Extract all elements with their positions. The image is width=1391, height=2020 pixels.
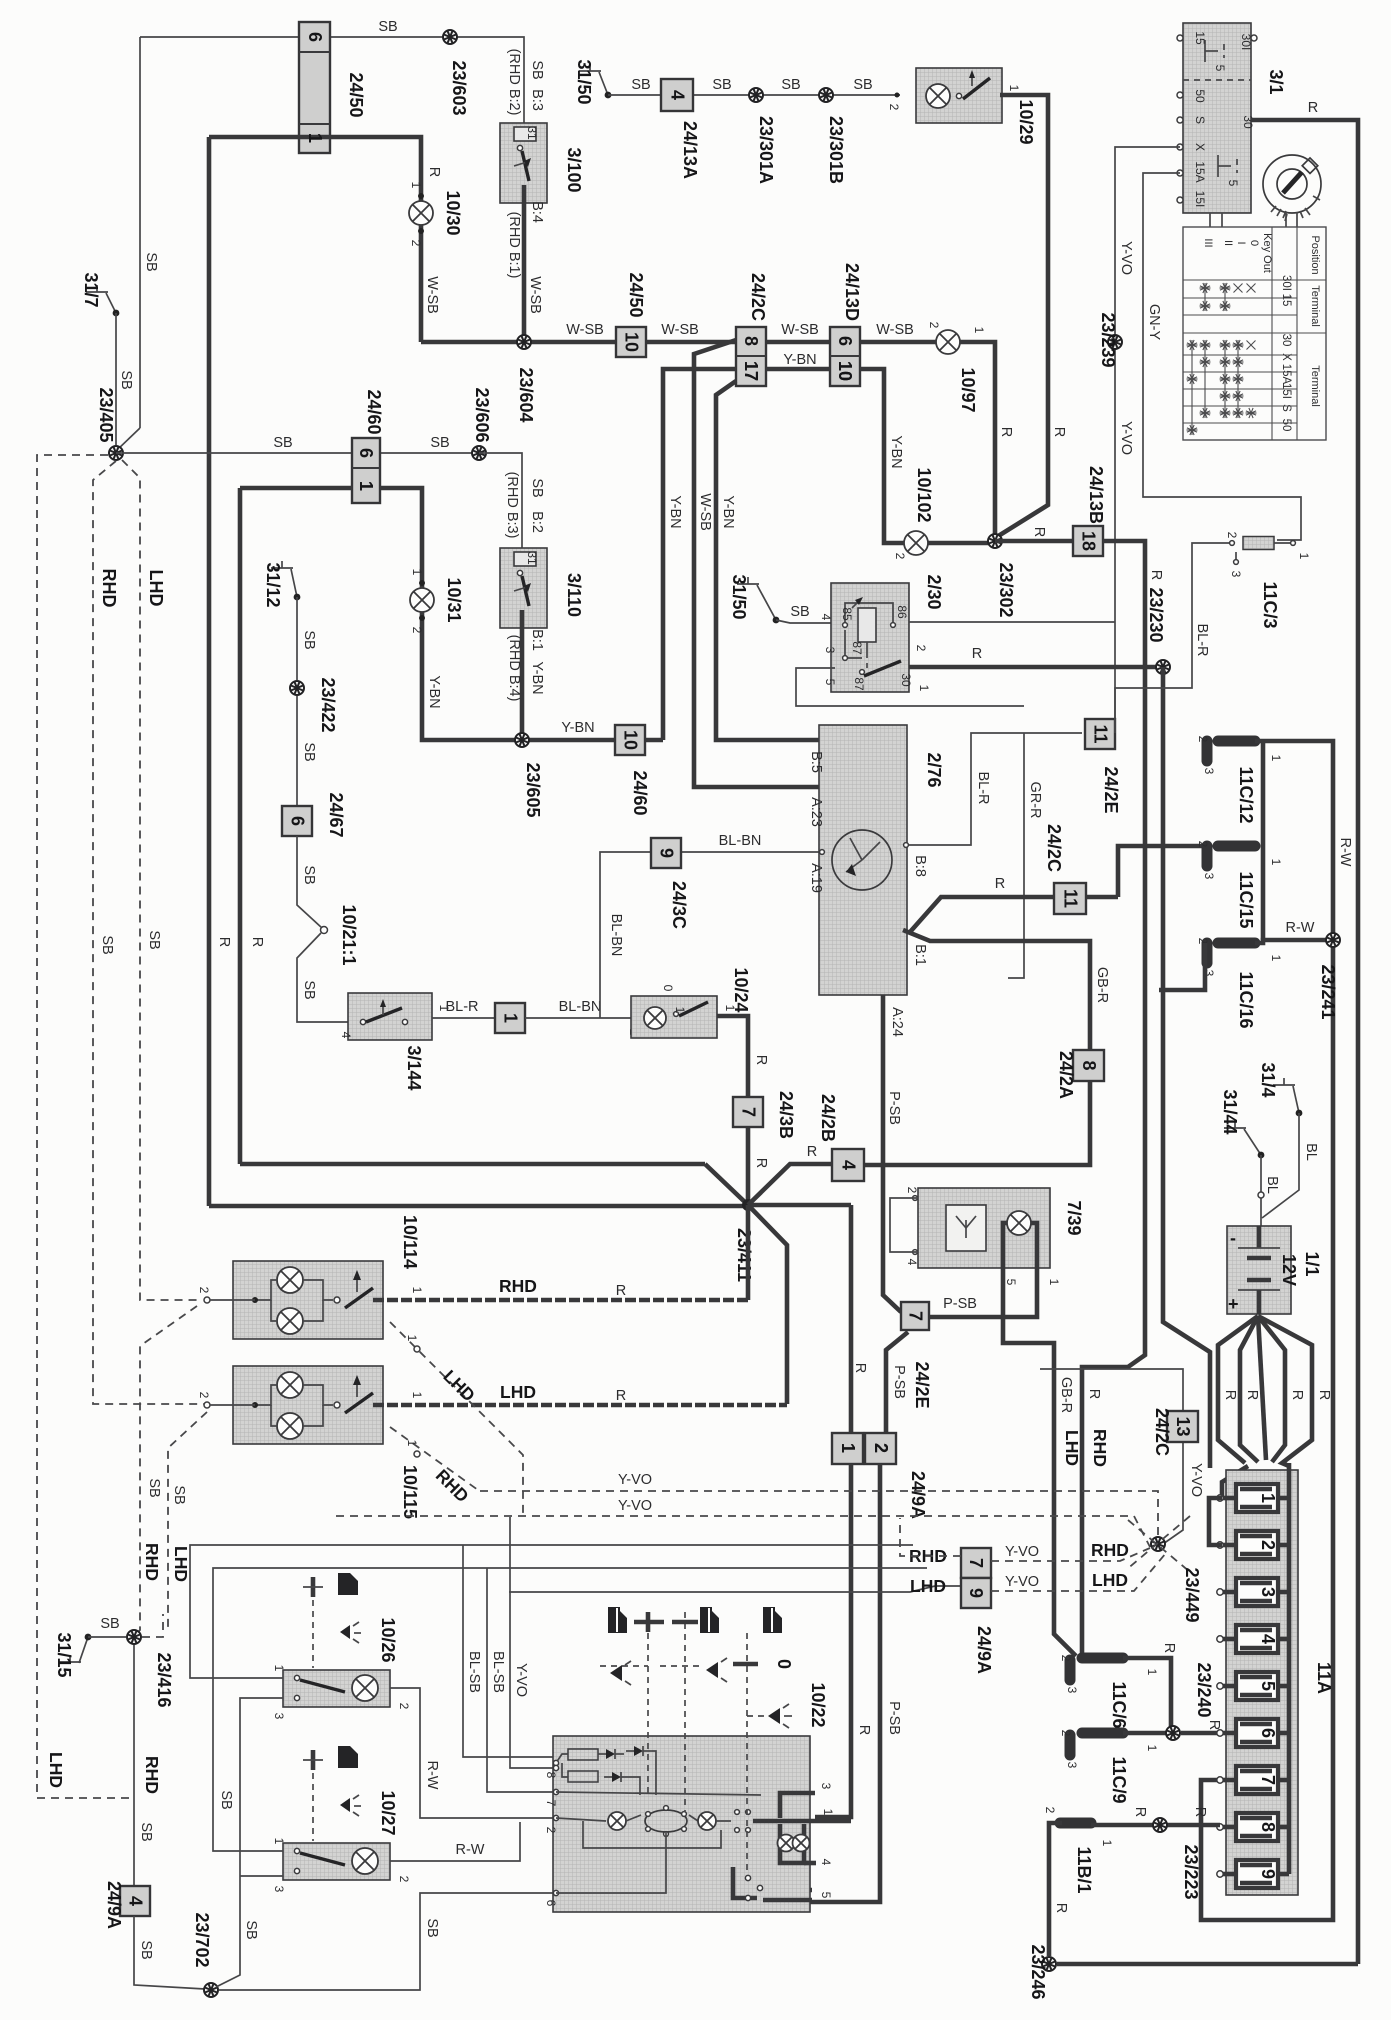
- label R right of 23/223: [1192, 1807, 1208, 1817]
- svg-text:SB: SB: [712, 77, 731, 93]
- svg-text:24/2E: 24/2E: [912, 1361, 932, 1408]
- dashed Y-VO from headlamps upper: [480, 1491, 1158, 1536]
- label 23/606: [472, 387, 492, 442]
- label SB top wire: [378, 19, 397, 35]
- svg-text:23/405: 23/405: [96, 387, 116, 442]
- ground 31/50 lower: [729, 574, 779, 623]
- label 24/2A: [1056, 1051, 1076, 1099]
- svg-text:R: R: [216, 937, 232, 947]
- svg-text:LHD: LHD: [171, 1546, 191, 1582]
- svg-text:R-W: R-W: [1286, 920, 1315, 936]
- svg-text:1: 1: [272, 1838, 286, 1845]
- pin 2 of 10/27: [397, 1876, 411, 1883]
- svg-text:5: 5: [819, 1892, 833, 1899]
- pin 2 of 7/39: [905, 1187, 919, 1201]
- label 11C/3: [1260, 581, 1280, 628]
- svg-text:II: II: [1222, 240, 1234, 246]
- wire thin stubs pins 2 4 of 7/39: [890, 1198, 918, 1252]
- ground 31/12: [263, 561, 300, 608]
- wire R battery fan 5: [1258, 1316, 1312, 1466]
- wire R from 23/411 junction over: [748, 1203, 851, 1208]
- wire BL-BN from 10/24 branch up to connector 9 and 2/76 A:19: [600, 852, 819, 1018]
- svg-text:SB: SB: [118, 370, 134, 389]
- svg-text:R: R: [616, 1388, 626, 1404]
- wire SB from 31/7 to 23/405: [115, 313, 117, 445]
- svg-text:R-W: R-W: [456, 1842, 485, 1858]
- svg-text:R: R: [1308, 100, 1318, 116]
- pin 2 of 10/114: [197, 1287, 211, 1303]
- svg-text:GR-R: GR-R: [1027, 781, 1043, 818]
- label W-SB: [566, 322, 604, 338]
- svg-text:B:5: B:5: [808, 751, 824, 773]
- label RHD below 23/416: [142, 1756, 162, 1794]
- connector 24/2E pin 7: [901, 1302, 929, 1330]
- label SB: [430, 435, 449, 451]
- svg-text:R: R: [972, 646, 982, 662]
- dashed RHD wire from 10/114 down to 23/416: [136, 1306, 197, 1634]
- svg-text:BL-BN: BL-BN: [559, 999, 602, 1015]
- svg-text:B:4: B:4: [529, 201, 545, 223]
- label BL-R: [1194, 623, 1210, 656]
- svg-text:10/114: 10/114: [400, 1215, 420, 1269]
- svg-text:B:8: B:8: [912, 855, 928, 877]
- label 23/302: [996, 562, 1016, 617]
- svg-text:24/2C: 24/2C: [1152, 1408, 1172, 1456]
- label LHD right: [1092, 1570, 1128, 1590]
- wire from lamp 10/102 to junction 23/302: [928, 541, 995, 546]
- svg-text:10: 10: [621, 730, 641, 750]
- wire P-SB continues down from 24/2E: [886, 1332, 908, 1432]
- connector 24/67 pin 1: [495, 1003, 525, 1033]
- label 7/39: [1064, 1200, 1084, 1235]
- dashed Y-VO lower: [336, 1516, 1150, 1547]
- label W-SB on 3/100 drop: [527, 276, 543, 314]
- label B:5: [808, 751, 824, 773]
- svg-text:2: 2: [397, 1703, 411, 1710]
- wire R RHD from 10/114: [373, 1298, 748, 1303]
- label 1 of 2/30: [917, 685, 931, 692]
- label Y-BN: [561, 720, 594, 736]
- svg-text:2: 2: [1043, 1807, 1057, 1814]
- svg-text:Y-VO: Y-VO: [618, 1498, 652, 1514]
- svg-text:11C/6: 11C/6: [1109, 1681, 1129, 1728]
- svg-text:11C/3: 11C/3: [1260, 581, 1280, 628]
- wire R outer frame bottom: [209, 1204, 705, 1209]
- wire SB from 24/60 pin6 to 23/606: [380, 452, 479, 454]
- svg-text:3/110: 3/110: [564, 573, 584, 617]
- label 1/1: [1302, 1251, 1322, 1276]
- svg-text:2: 2: [927, 322, 941, 329]
- label 3/1: [1266, 69, 1286, 94]
- svg-text:R: R: [1161, 1643, 1177, 1653]
- svg-text:R: R: [856, 1725, 872, 1735]
- svg-text:(RHD B:2): (RHD B:2): [506, 49, 522, 116]
- label 3/110: [564, 573, 584, 617]
- svg-text:W-SB: W-SB: [661, 322, 699, 338]
- label SB: [712, 77, 731, 93]
- pin 1 of 11C/15: [1269, 859, 1283, 866]
- svg-text:1: 1: [1269, 755, 1283, 762]
- svg-text:R: R: [807, 1144, 817, 1160]
- svg-text:9: 9: [657, 848, 677, 858]
- svg-text:RHD: RHD: [142, 1543, 162, 1581]
- svg-text:R-W: R-W: [424, 1761, 440, 1790]
- label 10/115: [400, 1465, 420, 1519]
- label Y-VO lower: [1118, 421, 1134, 455]
- svg-text:6: 6: [288, 816, 308, 826]
- label Y-VO vert: [513, 1663, 529, 1697]
- connector 24/9A pin 4: [120, 1886, 150, 1916]
- wire R inner frame into junction 23/411: [705, 1164, 748, 1205]
- svg-text:3/100: 3/100: [564, 147, 584, 192]
- label 11C/15: [1236, 871, 1256, 928]
- label 30 of 2/30: [899, 673, 913, 687]
- pin 1 of 10/29: [1007, 85, 1021, 92]
- label W-SB on middle leg: [697, 493, 713, 531]
- svg-text:24/50: 24/50: [626, 272, 646, 317]
- splice 23/449: [1151, 1537, 1165, 1551]
- fuse 11C/3: [1243, 537, 1274, 550]
- pin 1 of 11C/6: [1145, 1669, 1159, 1676]
- label BL at 31/44: [1264, 1176, 1280, 1194]
- connector 11B/1: [1060, 1818, 1091, 1829]
- svg-text:2: 2: [1059, 1655, 1073, 1662]
- svg-text:1: 1: [356, 481, 376, 491]
- svg-text:Y-VO: Y-VO: [618, 1472, 652, 1488]
- label BL-R on B:8 riser: [975, 771, 991, 804]
- wire SB from 31/50 to relay 2/30: [776, 620, 831, 623]
- svg-text:BL-BN: BL-BN: [608, 914, 624, 957]
- svg-text:11C/12: 11C/12: [1236, 766, 1256, 823]
- svg-text:3: 3: [1229, 571, 1243, 578]
- wire SB from 24/50 pin6 to 23/603 and 3/100: [140, 37, 524, 123]
- svg-text:I: I: [1235, 241, 1247, 244]
- label Y-VO below pin13: [1188, 1463, 1204, 1497]
- svg-text:24/13A: 24/13A: [680, 121, 700, 179]
- lamp 10/31: [410, 588, 434, 612]
- svg-text:9: 9: [966, 1588, 986, 1598]
- svg-text:1: 1: [1297, 553, 1311, 560]
- svg-text:0: 0: [1248, 240, 1260, 246]
- pin 8 of 10/22: [544, 1772, 558, 1779]
- svg-text:SB: SB: [301, 630, 317, 649]
- svg-text:15I: 15I: [1280, 383, 1292, 399]
- svg-text:10/97: 10/97: [958, 367, 978, 412]
- label 31 terminal of 3/110: [525, 551, 539, 565]
- svg-text:R: R: [1316, 1390, 1332, 1400]
- wire R left trunk from 24/50 pin1 down: [207, 137, 212, 1206]
- svg-text:-: -: [1230, 1228, 1236, 1248]
- svg-text:R: R: [1051, 427, 1067, 437]
- svg-text:P-SB: P-SB: [886, 1091, 902, 1125]
- splice 23/416: [127, 1630, 141, 1644]
- wire R from relay 2/30 contact 30 to splice 23/230: [909, 665, 1156, 670]
- svg-text:LHD: LHD: [500, 1382, 536, 1402]
- svg-text:1: 1: [501, 1013, 521, 1023]
- label GB-R: [1058, 1377, 1074, 1413]
- label 0 1 of 10/24: [661, 985, 687, 1014]
- wire R from 11C/6 to 23/240 via vertical: [1123, 1658, 1171, 1733]
- pin 1 of lamp 10/97: [972, 327, 986, 334]
- wire R from junction to 24/2B: [748, 1164, 832, 1205]
- pin 1 label of 24/9A restamp: [838, 1443, 858, 1453]
- svg-text:1: 1: [1269, 859, 1283, 866]
- svg-text:6: 6: [544, 1900, 558, 1907]
- pin 1 of 10/115: [410, 1392, 424, 1399]
- svg-text:7: 7: [1258, 1775, 1278, 1785]
- svg-text:3: 3: [819, 1783, 833, 1790]
- label RHD vert: [1090, 1429, 1110, 1467]
- label SB: [138, 1822, 154, 1841]
- svg-text:0: 0: [661, 985, 675, 992]
- pin 1 of 10/22: [821, 1809, 835, 1816]
- pin 1 of 11B/1: [1100, 1840, 1114, 1847]
- lamp of 7/39 on thick loop: [1007, 1211, 1031, 1235]
- pin 1 of 11C/16: [1269, 955, 1283, 962]
- svg-text:10/21:1: 10/21:1: [339, 904, 359, 965]
- dashed wire from 10/115 to LHD line: [168, 1412, 207, 1628]
- wire thin loop from relay 87 via 11C/34 node: [796, 668, 1024, 706]
- wire W-SB from 3/100 down to 23/604: [522, 185, 527, 342]
- label P-SB above 10/22: [886, 1701, 902, 1735]
- ignition switch 3/1: [1183, 23, 1251, 213]
- dashed LHD diagonal from 10/114: [390, 1322, 523, 1516]
- svg-text:R: R: [1148, 570, 1164, 580]
- label 2 of 2/30: [914, 645, 928, 652]
- labels R on battery fan: [1222, 1390, 1332, 1400]
- wire Y-BN from 3/110 to 23/605: [520, 610, 525, 740]
- svg-text:(RHD B:4): (RHD B:4): [506, 635, 522, 702]
- wire Y-VO from 3/1 X terminal: [1115, 147, 1180, 733]
- wire R bottom run from 23/246 to right trunk: [1057, 1962, 1358, 1967]
- label RHD on dashed: [99, 569, 119, 608]
- svg-text:W-SB: W-SB: [697, 493, 713, 531]
- svg-text:SB: SB: [853, 77, 872, 93]
- svg-text:3: 3: [823, 647, 837, 654]
- wire BL-BN from 24/67 to 10/24: [525, 1017, 637, 1019]
- svg-text:BL-R: BL-R: [975, 771, 991, 804]
- svg-text:11: 11: [1061, 889, 1081, 908]
- label RHD above 23/416: [142, 1543, 162, 1581]
- pin 2 of 10/24: [627, 1016, 643, 1036]
- label 24/9A at pin4: [104, 1881, 124, 1929]
- switch 3/144: [348, 993, 432, 1040]
- svg-text:A:23: A:23: [808, 797, 824, 827]
- svg-text:30I: 30I: [1280, 275, 1292, 291]
- svg-text:2/76: 2/76: [924, 752, 944, 787]
- svg-text:7: 7: [966, 1558, 986, 1568]
- connector 24/2C pin 13: [1167, 1411, 1198, 1442]
- svg-text:10/31: 10/31: [444, 577, 464, 622]
- label B on 23/411 R drop: [852, 1363, 868, 1373]
- svg-text:R: R: [616, 1283, 626, 1299]
- splice 23/241: [1326, 933, 1340, 947]
- connector 24/13D pins 6 and 10: [830, 263, 862, 386]
- label 10/30: [443, 190, 463, 235]
- wire BL-SB vertical to 10/22 pin 8: [463, 1545, 553, 1757]
- clock 7/39: [918, 1188, 1050, 1268]
- svg-text:Y-VO: Y-VO: [1118, 241, 1134, 275]
- svg-text:SB: SB: [171, 1485, 187, 1504]
- wire GN-Y from 3/1 15A terminal: [1143, 173, 1301, 540]
- svg-text:31/50: 31/50: [729, 574, 749, 619]
- svg-text:Terminal: Terminal: [1309, 365, 1321, 407]
- label SB on pin3 drop: [243, 1920, 259, 1939]
- dashed wire from 23/405 going down left edge: [37, 455, 133, 1798]
- label W-SB: [661, 322, 699, 338]
- svg-text:11C/9: 11C/9: [1109, 1756, 1129, 1803]
- svg-text:4: 4: [905, 1259, 919, 1266]
- label RHD right: [1091, 1540, 1129, 1560]
- svg-text:7/39: 7/39: [1064, 1200, 1084, 1235]
- svg-text:2: 2: [887, 104, 901, 111]
- label P-SB right of pin7: [943, 1296, 977, 1312]
- label 10/29: [1016, 99, 1036, 144]
- label LHD on dashed: [146, 570, 166, 607]
- wire R from 24/2B junction down to 24/9A 1: [849, 1205, 854, 1435]
- svg-text:2: 2: [197, 1287, 211, 1294]
- svg-text:24/2B: 24/2B: [818, 1094, 838, 1142]
- pin 7 of 10/22: [544, 1800, 558, 1807]
- svg-text:11B/1: 11B/1: [1074, 1846, 1094, 1893]
- svg-text:24/13D: 24/13D: [842, 263, 862, 321]
- svg-text:RHD: RHD: [99, 569, 119, 608]
- label Y-BN on 10/102 drop: [888, 435, 904, 468]
- label R-W: [1286, 920, 1315, 936]
- svg-text:BL: BL: [1264, 1176, 1280, 1194]
- svg-text:3: 3: [1065, 1762, 1079, 1769]
- wire GR-R from 24/2E line down to 11C/34: [1008, 733, 1024, 978]
- wire BL-SB vertical 2 to 10/22 pin 7: [487, 1568, 553, 1792]
- switch 3/110 door contact: [500, 548, 547, 628]
- svg-text:23/301B: 23/301B: [826, 116, 846, 184]
- svg-text:4: 4: [339, 1032, 353, 1039]
- svg-text:2: 2: [544, 1827, 558, 1834]
- label R: [1148, 570, 1164, 580]
- label Y-BN: [783, 352, 816, 368]
- svg-text:III: III: [1202, 238, 1214, 247]
- svg-text:7: 7: [544, 1800, 558, 1807]
- svg-text:15: 15: [1280, 294, 1292, 307]
- pin 2 of 11B/1: [1043, 1807, 1057, 1814]
- svg-text:7: 7: [739, 1107, 759, 1117]
- label SB: [138, 1940, 154, 1959]
- svg-text:15A: 15A: [1193, 161, 1207, 182]
- svg-text:5: 5: [1004, 1279, 1018, 1286]
- svg-text:4: 4: [668, 90, 688, 100]
- svg-text:RHD: RHD: [142, 1756, 162, 1794]
- label 24/13B: [1086, 466, 1106, 524]
- lead 2 3 of 11C/3: [1225, 532, 1243, 578]
- ground 31/4: [1258, 1062, 1302, 1116]
- svg-text:SB: SB: [138, 1940, 154, 1959]
- svg-text:3: 3: [272, 1713, 286, 1720]
- svg-text:SB: SB: [218, 1790, 234, 1809]
- pin 1 of 11C/12: [1269, 755, 1283, 762]
- label 23/422: [318, 677, 338, 732]
- svg-text:Y-VO: Y-VO: [1005, 1574, 1039, 1590]
- wire R main from 24/50 pin1 to lamp 10/30 corner: [209, 137, 421, 342]
- label R on inner trunk: [249, 937, 265, 947]
- label SB: [631, 77, 650, 93]
- svg-text:1: 1: [1007, 85, 1021, 92]
- svg-text:31: 31: [525, 126, 539, 140]
- pin 3 of 10/27: [272, 1886, 286, 1893]
- svg-text:P-SB: P-SB: [943, 1296, 977, 1312]
- svg-text:5: 5: [1226, 180, 1240, 187]
- svg-text:3/144: 3/144: [404, 1045, 424, 1090]
- svg-text:2: 2: [1225, 532, 1239, 539]
- label R on 10/29 drop: [1051, 427, 1067, 437]
- svg-text:87: 87: [850, 641, 864, 655]
- dashed wire Y-VO right of 24/9A 7: [991, 1548, 1150, 1561]
- svg-text:LHD: LHD: [146, 570, 166, 607]
- svg-text:SB: SB: [243, 1920, 259, 1939]
- light switch cluster 10/22: [553, 1736, 851, 1912]
- pin 1 of 10/27: [272, 1838, 286, 1845]
- label LHD diagonal: [439, 1366, 479, 1406]
- svg-text:P-SB: P-SB: [886, 1701, 902, 1735]
- wire R outer frame diagonal to 23/411: [705, 1204, 747, 1209]
- svg-text:Position: Position: [1309, 235, 1321, 274]
- label GB-R on B:1 drop: [1094, 967, 1110, 1003]
- svg-text:10/102: 10/102: [914, 467, 934, 522]
- label B:8: [904, 843, 928, 877]
- fog lamp switch 10/27: [283, 1843, 390, 1880]
- lamp 10/102: [904, 531, 928, 555]
- svg-text:23/241: 23/241: [1318, 964, 1338, 1019]
- label 24/2C: [1044, 824, 1064, 872]
- svg-text:24/60: 24/60: [364, 389, 384, 434]
- connector 24/50 top: [299, 22, 366, 153]
- wire BL-R from 2/76 B:8 to 24/2E 11: [909, 733, 1082, 845]
- pin 2 of lamp 10/97: [927, 322, 941, 329]
- wire BL-R from 11C/3 to 24/2E: [1115, 543, 1232, 733]
- svg-text:31: 31: [525, 551, 539, 565]
- wire R jog to 11C/15: [1118, 846, 1205, 897]
- label 23/223: [1181, 1844, 1201, 1899]
- wire R diagonal to LHD vertical: [748, 1205, 787, 1404]
- svg-text:15A: 15A: [1280, 364, 1292, 385]
- label 24/3B: [776, 1091, 796, 1139]
- svg-text:(RHD B:1): (RHD B:1): [506, 212, 522, 279]
- label 10/24: [731, 967, 751, 1012]
- wire R battery fan 4: [1258, 1316, 1285, 1462]
- connector 11C/15: [1218, 841, 1255, 852]
- label LHD vert: [1062, 1430, 1082, 1466]
- ground 31/15: [54, 1632, 91, 1677]
- connector 24/2A pin 8: [1073, 1050, 1104, 1081]
- svg-text:31/7: 31/7: [81, 272, 101, 307]
- svg-text:RHD: RHD: [1090, 1429, 1110, 1467]
- label R-W: [456, 1842, 485, 1858]
- svg-text:SB: SB: [143, 252, 159, 271]
- svg-text:SB: SB: [301, 742, 317, 761]
- label 23/416: [154, 1652, 174, 1707]
- wire SB from 23/416 down to 24/9A 4: [133, 1645, 135, 1886]
- wire R inner trunk from 24/60 down: [238, 488, 243, 1164]
- wire R to 11C/16 left from trunk: [1159, 943, 1205, 990]
- svg-text:23/702: 23/702: [192, 1912, 212, 1967]
- ground 31/7: [81, 272, 119, 316]
- wire R battery fan 3: [1258, 1316, 1266, 1460]
- label B:1 Y-BN below 3/110: [529, 629, 545, 695]
- label 24/2C at pin13: [1152, 1408, 1172, 1456]
- combined instrument 2/76: [819, 725, 907, 995]
- pin 3 of 10/26: [272, 1713, 286, 1720]
- label B:1: [912, 944, 928, 966]
- label 10/114: [400, 1215, 420, 1269]
